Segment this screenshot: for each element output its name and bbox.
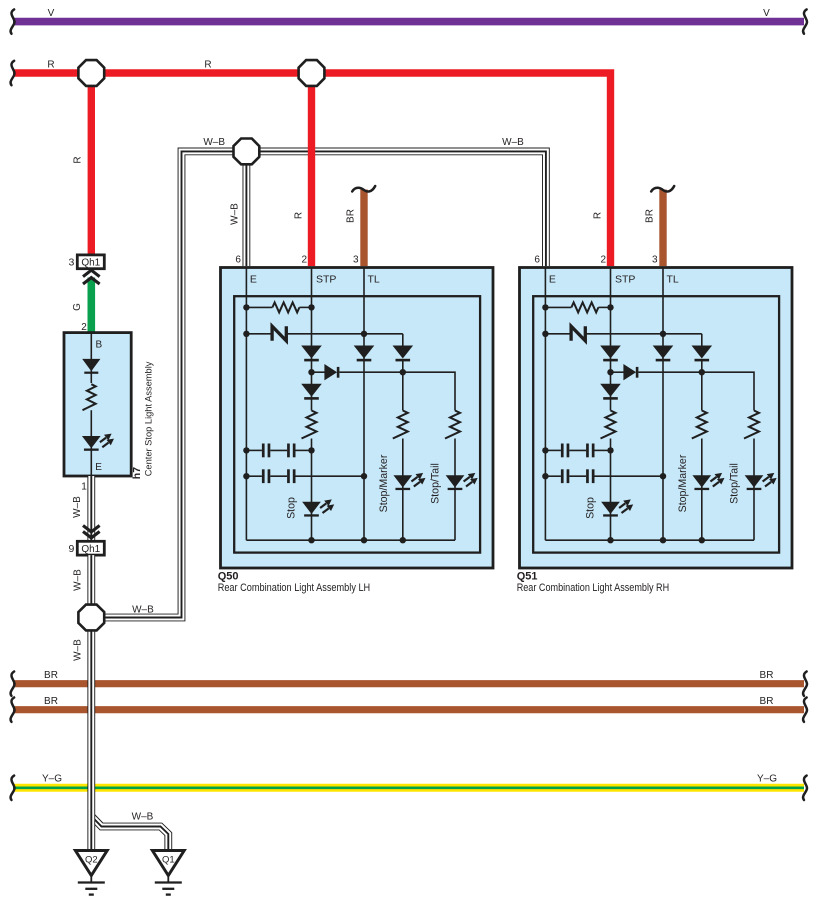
svg-text:Qh1: Qh1 bbox=[81, 257, 100, 268]
wire G (green) to h7 pin 2 bbox=[88, 278, 96, 335]
wire W-B drop to Q50 pin 6 bbox=[242, 152, 250, 266]
Q50 pin E wire bbox=[245, 268, 247, 541]
h7 resistor bbox=[83, 384, 96, 410]
wire BR bus 2 (brown) bbox=[11, 698, 807, 722]
svg-text:BR: BR bbox=[645, 209, 656, 223]
Q51 resistor (tail branch) bbox=[744, 411, 759, 439]
svg-text:W–B: W–B bbox=[132, 605, 154, 616]
Q50 diode (series, right-pointing) bbox=[324, 364, 339, 380]
Q51 resistor (E-STP) bbox=[545, 302, 610, 312]
Q50 bottom rail bbox=[246, 539, 455, 541]
svg-text:6: 6 bbox=[534, 255, 540, 266]
wire W-B branch to ground Q1 bbox=[91, 816, 168, 850]
Q51 resistor (STP branch) bbox=[601, 411, 616, 439]
svg-text:BR: BR bbox=[760, 670, 774, 681]
Q51 LED Stop bbox=[601, 499, 633, 516]
Q50 resistor (STP branch) bbox=[302, 411, 317, 439]
Q51 diode row wire (STP to Stop/Tail) bbox=[611, 372, 755, 410]
Q50 junction dots bbox=[243, 304, 406, 543]
Q51 thermistor N row wire bbox=[545, 334, 701, 346]
svg-text:BR: BR bbox=[44, 696, 58, 707]
svg-text:BR: BR bbox=[44, 670, 58, 681]
Q50 inner box bbox=[234, 296, 480, 552]
Q51 diode (series, right-pointing) bbox=[623, 364, 638, 380]
svg-text:Center Stop Light Assembly: Center Stop Light Assembly bbox=[144, 361, 154, 476]
Q51 diode (marker branch) bbox=[692, 346, 713, 362]
svg-text:R: R bbox=[294, 212, 305, 219]
Q51 LED Stop/Marker bbox=[692, 473, 724, 490]
wire R drop to connector Qh1 pin 3 bbox=[88, 79, 95, 254]
svg-text:TL: TL bbox=[667, 273, 679, 285]
connector Qh1 pin 3 box bbox=[77, 255, 104, 269]
svg-text:Q1: Q1 bbox=[162, 855, 175, 866]
junction octagon R bus / center stop branch bbox=[78, 60, 104, 86]
Q50 diode 2 (STP) bbox=[301, 384, 322, 400]
svg-text:Q50: Q50 bbox=[218, 570, 239, 582]
Q50 pin STP wire bbox=[311, 268, 313, 541]
svg-text:Stop/Marker: Stop/Marker bbox=[378, 454, 390, 512]
svg-text:TL: TL bbox=[368, 273, 380, 285]
Q51 inner box bbox=[533, 296, 779, 552]
wire W-B Qh1 to ground junction bbox=[87, 555, 95, 604]
connector Qh1 pin 9 box bbox=[77, 541, 104, 555]
wire R bus (red) to Q51 STP bbox=[11, 61, 611, 266]
Q51 marker branch wire bbox=[701, 361, 703, 540]
Q51 bottom rail bbox=[545, 539, 754, 541]
svg-text:3: 3 bbox=[353, 255, 359, 266]
connector mating chevrons (h7/Qh1 down) bbox=[83, 526, 100, 538]
svg-text:V: V bbox=[48, 8, 55, 19]
svg-text:Y–G: Y–G bbox=[42, 774, 62, 785]
ground Q2 bbox=[75, 851, 107, 895]
junction octagon W-B bus / Q50 pin 6 branch bbox=[234, 139, 260, 165]
Q50 LED Stop bbox=[302, 499, 334, 516]
svg-text:2: 2 bbox=[301, 255, 307, 266]
svg-text:Stop/Marker: Stop/Marker bbox=[677, 454, 689, 512]
Q51 outer box bbox=[520, 268, 793, 569]
svg-text:R: R bbox=[593, 212, 604, 219]
wire BR stub to Q50 TL bbox=[352, 186, 375, 266]
svg-text:W–B: W–B bbox=[73, 569, 84, 591]
svg-text:Qh1: Qh1 bbox=[81, 544, 100, 555]
svg-text:R: R bbox=[47, 60, 54, 71]
Q50 diode (STP) bbox=[301, 346, 322, 362]
Q50 LED Stop/Marker bbox=[393, 473, 425, 490]
Q50 LED Stop/Tail bbox=[446, 473, 478, 490]
svg-text:Q2: Q2 bbox=[85, 855, 98, 866]
svg-text:E: E bbox=[250, 273, 257, 285]
Q51 junction dots bbox=[542, 304, 705, 543]
Q51 LED Stop/Tail bbox=[745, 473, 777, 490]
Q50 thermistor N symbol bbox=[272, 326, 286, 341]
svg-text:G: G bbox=[72, 303, 83, 311]
svg-text:Rear Combination Light Assembl: Rear Combination Light Assembly RH bbox=[517, 582, 670, 594]
Q51 pin E wire bbox=[544, 268, 546, 541]
Q50 diode (TL) bbox=[354, 346, 375, 362]
Q50 resistor (tail branch) bbox=[445, 411, 460, 439]
svg-text:STP: STP bbox=[316, 273, 336, 285]
wire W-B ground junction to ground Q2 bbox=[87, 631, 95, 850]
svg-text:Stop: Stop bbox=[585, 497, 597, 519]
svg-text:9: 9 bbox=[68, 543, 74, 555]
center stop light assembly h7 box bbox=[64, 333, 131, 476]
svg-text:2: 2 bbox=[600, 255, 606, 266]
Q51 diode (TL) bbox=[653, 346, 674, 362]
svg-text:W–B: W–B bbox=[502, 137, 524, 148]
wire W-B: ground junction to Q51 pin 6 (white/black) bbox=[105, 151, 546, 617]
svg-text:W–B: W–B bbox=[132, 812, 154, 823]
Q50 resistor (marker branch) bbox=[393, 411, 408, 439]
wire R drop to Q50 STP bbox=[308, 79, 315, 266]
svg-text:W–B: W–B bbox=[230, 203, 241, 225]
Q50 capacitors row 1 (E-STP) bbox=[246, 444, 311, 458]
svg-text:STP: STP bbox=[615, 273, 635, 285]
Q51 capacitors row 2 (E-TL) bbox=[545, 469, 663, 483]
h7 diode bbox=[82, 359, 100, 374]
wire V bus (purple) bbox=[11, 9, 807, 33]
svg-text:Stop: Stop bbox=[286, 497, 298, 519]
junction octagon R bus / Q50 STP branch bbox=[299, 60, 325, 86]
Q50 capacitors row 2 (E-TL) bbox=[246, 469, 364, 483]
Q50 title bbox=[218, 570, 371, 594]
ground Q1 bbox=[152, 851, 184, 895]
Q51 resistor (marker branch) bbox=[692, 411, 707, 439]
svg-text:R: R bbox=[204, 60, 211, 71]
svg-text:Stop/Tail: Stop/Tail bbox=[429, 463, 441, 504]
Q50 resistor (E-STP) bbox=[246, 302, 311, 312]
Q51 pin TL wire bbox=[662, 268, 664, 541]
wire W-B h7 pin 1 to Qh1 pin 9 bbox=[87, 476, 95, 541]
junction octagon W-B grounds bbox=[78, 605, 104, 631]
svg-text:Q51: Q51 bbox=[517, 570, 538, 582]
svg-text:Y–G: Y–G bbox=[757, 774, 777, 785]
Q50 pin TL wire bbox=[363, 268, 365, 541]
svg-text:3: 3 bbox=[68, 256, 74, 268]
svg-text:W–B: W–B bbox=[203, 137, 225, 148]
svg-text:W–B: W–B bbox=[73, 639, 84, 661]
svg-text:E: E bbox=[549, 273, 556, 285]
Q51 diode 2 (STP) bbox=[600, 384, 621, 400]
Q51 diode (STP) bbox=[600, 346, 621, 362]
svg-text:h7: h7 bbox=[131, 467, 143, 479]
Q51 title bbox=[517, 570, 670, 594]
h7 LED (stop lamp) bbox=[82, 434, 114, 451]
svg-text:3: 3 bbox=[652, 255, 658, 266]
svg-text:R: R bbox=[73, 156, 84, 163]
Q51 tail branch wire bbox=[753, 439, 755, 541]
h7 internal wire bbox=[90, 333, 92, 476]
Q51 thermistor N symbol bbox=[571, 326, 585, 341]
svg-text:BR: BR bbox=[346, 209, 357, 223]
Q50 tail branch wire bbox=[454, 439, 456, 541]
svg-text:B: B bbox=[96, 340, 103, 351]
Q50 thermistor N row wire bbox=[246, 334, 402, 346]
svg-text:6: 6 bbox=[235, 255, 241, 266]
svg-text:V: V bbox=[763, 8, 770, 19]
Q50 marker branch wire bbox=[402, 361, 404, 540]
wire Y-G bus (yellow/green) bbox=[11, 776, 807, 800]
wire BR bus 1 (brown) bbox=[11, 672, 807, 696]
svg-text:E: E bbox=[95, 462, 102, 473]
svg-text:W–B: W–B bbox=[72, 496, 83, 518]
Q51 pin STP wire bbox=[610, 268, 612, 541]
Q50 diode row wire (STP to Stop/Tail) bbox=[312, 372, 456, 410]
svg-text:1: 1 bbox=[81, 482, 87, 493]
svg-text:BR: BR bbox=[760, 696, 774, 707]
connector mating chevrons (Qh1/h7) bbox=[83, 270, 100, 284]
Q50 diode (marker branch) bbox=[393, 346, 414, 362]
svg-text:Rear Combination Light Assembl: Rear Combination Light Assembly LH bbox=[218, 582, 371, 594]
Q50 outer box bbox=[221, 268, 494, 569]
svg-text:Stop/Tail: Stop/Tail bbox=[728, 463, 740, 504]
wire BR stub to Q51 TL bbox=[651, 186, 674, 266]
Q51 capacitors row 1 (E-STP) bbox=[545, 444, 610, 458]
